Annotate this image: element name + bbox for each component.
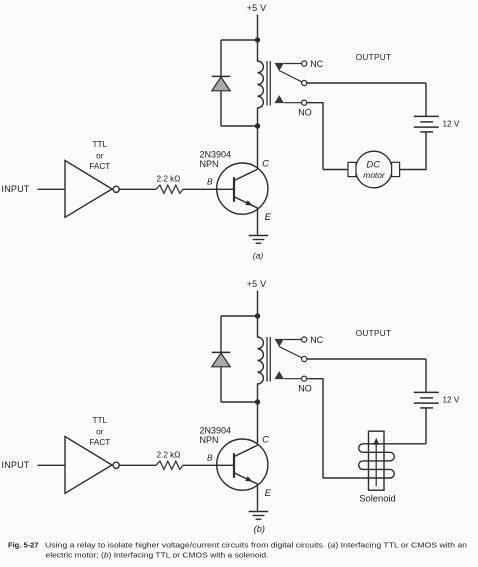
label NC (a) [310,59,323,69]
svg-text:OUTPUT: OUTPUT [356,53,391,62]
label E (emitter) (a) [265,212,272,223]
svg-text:(a): (a) [253,251,264,261]
terminal NC (b) [302,337,307,342]
ground (b) [249,512,269,520]
wire [38,464,66,466]
terminal NC (a) [302,61,307,66]
relay NC contact point (b) [275,339,285,347]
wire [257,484,259,511]
svg-text:+5 V: +5 V [247,279,267,289]
label 2N3904 NPN (b) [200,426,232,446]
relay coil K (b) [258,316,264,402]
wire [257,291,259,317]
svg-text:motor: motor [363,170,386,180]
svg-text:electric motor; (b) Interfacin: electric motor; (b) Interfacing TTL or C… [46,551,269,560]
svg-text:NPN: NPN [200,435,219,445]
svg-text:2.2 kΩ: 2.2 kΩ [157,174,181,183]
label 12 V (a) [443,120,460,129]
inverter output bubble (b) [113,462,119,468]
svg-text:NO: NO [298,383,312,393]
wire [221,125,258,127]
relay NO contact point (a) [275,95,285,103]
svg-text:Fig. 5-27: Fig. 5-27 [8,541,39,550]
node relay-top junction (b) [255,313,260,318]
solenoid plunger [369,431,385,490]
svg-text:OUTPUT: OUTPUT [356,329,391,338]
wire [220,91,222,126]
node relay-bottom junction (a) [255,123,260,128]
svg-text:NC: NC [310,335,323,345]
svg-text:TTL: TTL [93,140,108,149]
diode D (flyback) (b) [212,352,230,366]
inverter gate (TTL/FACT) (b) [65,437,112,494]
label NO (b) [298,383,312,393]
label B (base) (a) [207,176,213,186]
relay core (b) [267,337,270,382]
inverter gate (TTL/FACT) (a) [65,161,112,218]
svg-text:NC: NC [310,59,323,69]
caption line 1 [45,541,467,550]
svg-text:Solenoid: Solenoid [359,493,396,504]
wire [221,401,258,403]
svg-text:INPUT: INPUT [2,184,30,194]
transistor Q 2N3904 (a) [217,163,268,214]
wire [307,82,426,84]
wire [220,316,222,352]
label E (emitter) (b) [265,488,272,499]
relay armature (b) [279,347,302,358]
svg-text:B: B [207,452,213,462]
node relay-top junction (a) [255,37,260,42]
svg-text:2N3904: 2N3904 [200,150,232,160]
transistor Q 2N3904 (b) [217,439,268,490]
label 2.2 kOhm (a) [157,174,181,183]
wire [323,169,348,171]
svg-text:(b): (b) [254,524,265,534]
svg-text:C: C [262,435,269,446]
wire [307,379,323,478]
relay NC contact point (a) [275,63,285,71]
inverter output bubble (a) [113,186,119,192]
wire [257,126,259,169]
wire [220,367,222,402]
wire [257,15,259,41]
wire [221,315,258,317]
wire [220,40,222,76]
resistor R 2.2k (b) [156,461,183,469]
wire [119,188,156,190]
svg-text:NPN: NPN [200,159,219,169]
ground (a) [249,236,269,244]
svg-text:FACT: FACT [89,438,110,447]
wire [307,358,426,360]
label NC (b) [310,335,323,345]
wire [425,408,427,444]
label OUTPUT (a) [356,53,391,62]
terminal NO (b) [302,376,307,381]
svg-text:FACT: FACT [89,162,110,171]
relay coil K (a) [258,40,264,126]
wire [257,402,259,445]
wire [119,464,156,466]
wire [425,83,427,116]
label DC motor [363,159,386,180]
wire [284,339,302,341]
battery B2 12V (b) [414,392,439,408]
caption figure number [8,541,39,550]
label Solenoid [359,493,396,504]
svg-text:C: C [262,159,269,170]
terminal common (a) [302,80,307,85]
svg-text:2N3904: 2N3904 [200,426,232,436]
wire [183,188,234,190]
label C (collector) (a) [262,159,269,170]
relay core (a) [267,61,270,106]
diode D (flyback) (a) [212,76,230,90]
svg-text:2.2 kΩ: 2.2 kΩ [157,450,181,459]
wire [221,39,258,41]
solenoid coil [323,444,426,478]
svg-text:B: B [207,176,213,186]
svg-text:12 V: 12 V [443,120,460,129]
resistor R 2.2k (a) [156,185,183,193]
label 2.2 kOhm (b) [157,450,181,459]
relay NO contact point (b) [275,371,285,379]
label INPUT (a) [2,184,30,194]
svg-text:Using a relay to isolate highe: Using a relay to isolate higher voltage/… [45,541,467,550]
caption line 2 [46,551,269,560]
battery B1 12V (a) [414,116,439,131]
label (b) [254,524,265,534]
svg-text:12 V: 12 V [443,396,460,405]
label B (base) (b) [207,452,213,462]
wire [284,63,302,65]
label 12 V (b) [443,396,460,405]
terminal NO (a) [302,100,307,105]
svg-text:TTL: TTL [93,416,108,425]
wire [425,359,427,392]
wire [38,188,66,190]
svg-text:INPUT: INPUT [2,460,30,470]
label (a) [253,251,264,261]
power +5V label (a) [247,3,267,13]
label 2N3904 NPN (a) [200,150,232,170]
svg-text:E: E [265,212,272,223]
wire [257,208,259,235]
terminal common (b) [302,356,307,361]
svg-text:+5 V: +5 V [247,3,267,13]
label NO (a) [298,107,312,117]
wire [400,132,426,170]
wire [284,378,302,380]
wire [307,103,323,170]
relay armature (a) [279,71,302,82]
label C (collector) (b) [262,435,269,446]
svg-text:NO: NO [298,107,312,117]
svg-text:DC: DC [366,159,380,170]
label INPUT (b) [2,460,30,470]
wire [183,464,234,466]
svg-text:E: E [265,488,272,499]
svg-text:or: or [96,427,104,436]
wire [284,102,302,104]
node relay-bottom junction (b) [255,399,260,404]
svg-text:or: or [96,151,104,160]
label OUTPUT (b) [356,329,391,338]
label TTL or FACT (b) [89,416,110,447]
power +5V label (b) [247,279,267,289]
motor M1 DC [348,151,400,188]
label TTL or FACT (a) [89,140,110,171]
